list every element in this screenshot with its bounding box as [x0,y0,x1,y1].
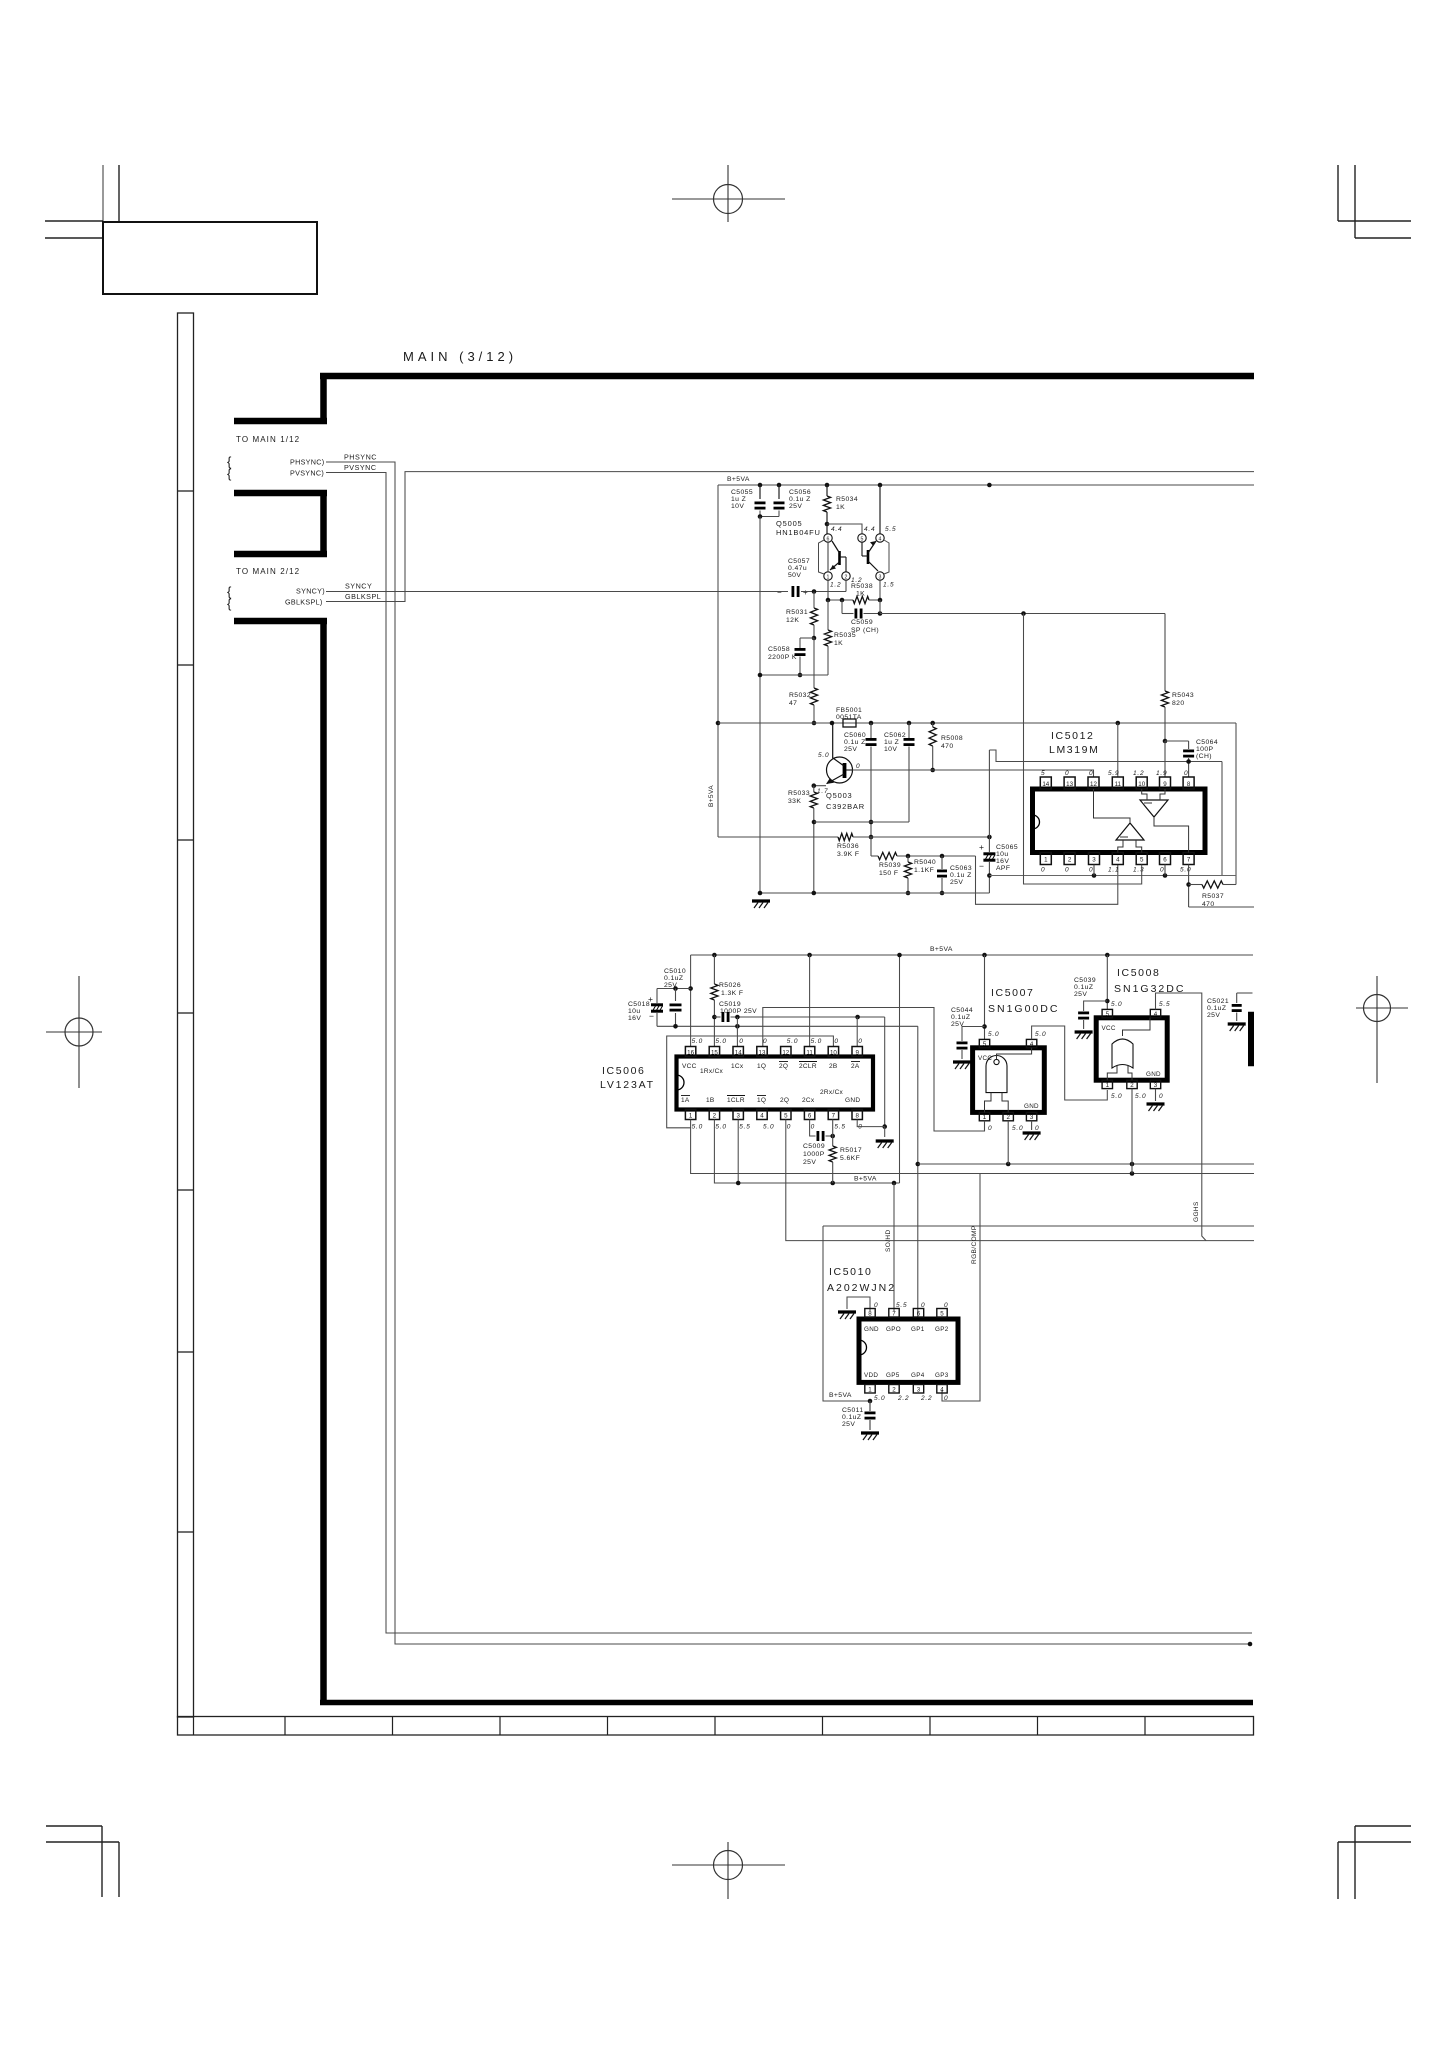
svg-text:5.5: 5.5 [885,526,896,533]
svg-text:0.1uZ: 0.1uZ [1074,984,1093,991]
svg-text:SN1G00DC: SN1G00DC [988,1003,1059,1015]
svg-text:VCC: VCC [1102,1025,1116,1032]
svg-text:5.0: 5.0 [988,1031,999,1038]
svg-text:C5039: C5039 [1074,977,1096,984]
svg-text:2B: 2B [829,1063,838,1070]
svg-text:5.0: 5.0 [692,1038,703,1045]
svg-text:VCC: VCC [978,1055,992,1062]
svg-text:25V: 25V [844,746,857,753]
wire pin1 drop [691,1120,1254,1174]
svg-text:R5038: R5038 [851,583,873,590]
svg-text:SYNCY): SYNCY) [296,587,325,596]
svg-text:R5034: R5034 [836,496,858,503]
svg-text:1CLR: 1CLR [727,1097,745,1104]
wire pin9 riser [856,1017,858,1047]
svg-text:1Q: 1Q [757,1097,766,1104]
svg-text:PHSYNC): PHSYNC) [290,458,324,467]
svg-text:0: 0 [921,1302,925,1309]
op-amp comparator IC5012 body [1033,789,1206,853]
svg-text:C5018: C5018 [628,1001,650,1008]
svg-text:6: 6 [917,1310,921,1317]
wire Q5003 output to IC5012 pin10 [853,770,1094,777]
svg-text:2.2: 2.2 [920,1395,932,1402]
svg-text:IC5010: IC5010 [829,1266,872,1278]
svg-text:3: 3 [917,1386,921,1393]
svg-text:2: 2 [1068,857,1072,864]
svg-text:25V: 25V [950,879,963,886]
svg-text:0: 0 [787,1124,791,1131]
svg-text:2Rx/Cx: 2Rx/Cx [820,1089,844,1096]
svg-text:12K: 12K [786,617,799,624]
svg-text:1: 1 [983,1114,987,1121]
svg-text:5: 5 [1041,770,1045,777]
wire pin2 pin3 B+5VA bus [714,1120,899,1184]
svg-text:1u Z: 1u Z [731,496,746,503]
svg-text:1: 1 [1106,1082,1110,1089]
svg-text:C5060: C5060 [844,732,866,739]
svg-text:C5056: C5056 [789,489,811,496]
svg-text:0: 0 [1065,770,1069,777]
svg-text:5.0: 5.0 [1035,1031,1046,1038]
svg-text:1: 1 [1044,857,1048,864]
svg-text:470: 470 [941,743,954,750]
svg-text:0: 0 [1159,1093,1163,1100]
svg-text:0: 0 [858,1038,862,1045]
svg-text:{: { [227,596,232,611]
wire GBLKSPL riser [326,472,1254,602]
svg-text:25V: 25V [842,1421,855,1428]
svg-text:2: 2 [1006,1114,1010,1121]
wire IC5007 pin1 route [984,1121,986,1131]
registration target right-edge [1364,995,1391,1022]
IC IC5006 body [677,1057,874,1110]
svg-text:GND: GND [1146,1071,1161,1078]
svg-text:47: 47 [789,700,797,707]
wire IC5008 pin3 ground [1155,1089,1157,1101]
svg-text:R5033: R5033 [788,790,810,797]
svg-text:5.5: 5.5 [896,1302,907,1309]
wire IC5007 pin3 ground [1031,1121,1033,1130]
svg-text:GP5: GP5 [886,1372,900,1379]
svg-text:1A: 1A [681,1097,690,1104]
svg-text:1.3K F: 1.3K F [721,990,743,997]
svg-text:5.0: 5.0 [787,1038,798,1045]
svg-text:0: 0 [1089,867,1093,874]
svg-text:A202WJN2: A202WJN2 [827,1282,896,1294]
svg-text:1.7: 1.7 [817,788,828,795]
bottom ruler bar [178,1717,1254,1736]
svg-text:0: 0 [1184,770,1188,777]
svg-text:5.5: 5.5 [1159,1001,1170,1008]
svg-text:11: 11 [806,1050,813,1057]
svg-text:IC5008: IC5008 [1117,967,1160,979]
wire pin8 ground [857,1120,885,1127]
svg-text:2: 2 [892,1386,896,1393]
wire pin7 output [1189,906,1254,908]
svg-text:C5065: C5065 [996,844,1018,851]
svg-text:C5057: C5057 [788,558,810,565]
wire pin8 ground loop [847,1297,870,1311]
svg-text:2Cx: 2Cx [802,1097,815,1104]
svg-text:8: 8 [855,1113,859,1120]
svg-text:PHSYNC: PHSYNC [344,453,377,462]
svg-text:APF: APF [996,865,1010,872]
svg-text:GGHS: GGHS [1193,1201,1200,1222]
svg-text:(CH): (CH) [1196,753,1212,760]
wire pin11 to rail [1117,723,1119,777]
svg-text:1K: 1K [834,640,843,647]
svg-text:14: 14 [735,1050,742,1057]
svg-text:5: 5 [784,1113,788,1120]
svg-text:0051TA: 0051TA [836,714,862,721]
svg-text:B+5VA: B+5VA [930,946,953,953]
wire C5055/C5056 ground drop [778,511,780,517]
wire PVSYNC [326,473,1252,1634]
svg-text:25V: 25V [789,503,802,510]
svg-text:+: + [803,588,808,597]
svg-text:12: 12 [1090,781,1097,788]
svg-text:25V: 25V [1074,991,1087,998]
svg-text:150 F: 150 F [879,870,898,877]
wire SO/HD drop [893,1183,895,1311]
svg-text:R5031: R5031 [786,609,808,616]
svg-text:−: − [979,861,984,871]
svg-text:C5063: C5063 [950,865,972,872]
svg-text:C5010: C5010 [664,968,686,975]
svg-text:2200P K: 2200P K [768,654,797,661]
svg-text:2: 2 [1130,1082,1134,1089]
svg-text:1.2: 1.2 [1133,770,1144,777]
svg-text:0: 0 [811,1124,815,1131]
crop mark bottom-left [46,1825,102,1827]
svg-text:0: 0 [1065,867,1069,874]
wire Q5005 pin3 drop [879,581,881,601]
svg-text:2A: 2A [851,1063,860,1070]
svg-text:0: 0 [1035,1125,1039,1132]
svg-text:C5059: C5059 [851,619,873,626]
svg-text:3: 3 [879,575,882,581]
svg-text:6: 6 [808,1113,812,1120]
svg-text:5: 5 [861,537,864,543]
wire top rail IC5010 [823,1225,1254,1227]
svg-text:8: 8 [1187,781,1191,788]
svg-text:{: { [227,466,232,481]
svg-text:+: + [648,994,653,1004]
svg-text:IC5007: IC5007 [991,987,1034,999]
wire lower join [760,674,828,676]
svg-text:VDD: VDD [864,1372,878,1379]
svg-text:R5040: R5040 [914,859,936,866]
svg-text:HN1B04FU: HN1B04FU [776,528,821,537]
wire IC5007 pin2 drop [1007,1121,1009,1164]
svg-text:33K: 33K [788,798,801,805]
svg-text:C5011: C5011 [842,1407,864,1414]
registration target left-edge [65,1018,93,1046]
ground C5039 [1075,1030,1093,1033]
wire C5059 output to R5043 [880,613,1165,615]
IC IC5007 body [973,1048,1045,1113]
wire SYNCY [326,591,788,593]
svg-text:10u: 10u [996,851,1009,858]
svg-text:5.0: 5.0 [1111,1001,1122,1008]
svg-text:12: 12 [782,1050,789,1057]
svg-text:5.0: 5.0 [811,1038,822,1045]
svg-text:GP2: GP2 [935,1326,949,1333]
svg-text:9: 9 [1163,781,1167,788]
svg-text:0: 0 [874,1302,878,1309]
wire PHSYNC [326,462,1250,1644]
svg-text:0: 0 [988,1125,992,1132]
svg-text:RGB/COMP: RGB/COMP [971,1225,978,1264]
svg-text:14: 14 [1042,781,1049,788]
svg-text:50V: 50V [788,572,801,579]
svg-text:0.47u: 0.47u [788,565,807,572]
svg-text:5.5: 5.5 [739,1124,750,1131]
svg-text:1K: 1K [836,504,845,511]
wire pin9 drop [1164,741,1166,777]
svg-text:2.2: 2.2 [897,1395,909,1402]
svg-text:5: 5 [1106,1011,1110,1018]
svg-text:C392BAR: C392BAR [826,802,865,811]
svg-text:0: 0 [1041,867,1045,874]
wire VCC drop pin16 [690,955,692,1047]
wire B+5VA to IC5008 pin5 [1106,955,1108,1009]
svg-text:GPO: GPO [886,1326,901,1333]
svg-text:4.4: 4.4 [864,526,875,533]
wire cap bottoms [657,1025,918,1027]
wire B+5VA rail [718,484,1254,486]
svg-text:10: 10 [830,1050,837,1057]
svg-text:GND: GND [845,1097,860,1104]
svg-text:R5032: R5032 [789,692,811,699]
svg-text:PVSYNC): PVSYNC) [290,469,324,478]
svg-text:Q5005: Q5005 [776,519,803,528]
svg-text:GBLKSPL: GBLKSPL [345,592,381,601]
svg-text:GP4: GP4 [911,1372,925,1379]
svg-text:GND: GND [1024,1103,1039,1110]
svg-text:1.9: 1.9 [1156,770,1167,777]
svg-text:7: 7 [1187,857,1191,864]
wire y1164 bus [918,1163,1254,1165]
svg-text:5.5: 5.5 [834,1124,845,1131]
wire IC5008 pin4 GGHS [1156,993,1207,1241]
svg-text:5.0: 5.0 [1012,1125,1023,1132]
svg-text:0.1u Z: 0.1u Z [950,872,972,879]
pin boxes IC5008 [1102,1009,1112,1017]
registration target bottom-center [714,1851,743,1880]
wire B+5VA left leg IC5010 [823,1226,870,1401]
svg-text:5.9: 5.9 [1108,770,1119,777]
crop mark top-right [1337,165,1339,221]
svg-text:5: 5 [983,1041,987,1048]
svg-text:R5035: R5035 [834,632,856,639]
svg-text:GP1: GP1 [911,1326,925,1333]
svg-text:B+5VA: B+5VA [708,785,715,807]
svg-text:0: 0 [856,763,860,770]
svg-text:1: 1 [868,1386,872,1393]
NAND gate symbol [986,1056,1007,1093]
svg-text:1.2: 1.2 [830,582,841,589]
svg-text:5: 5 [940,1310,944,1317]
svg-text:R5037: R5037 [1202,893,1224,900]
svg-text:820: 820 [1172,700,1185,707]
wire IC5012 pin5 sense loop [1024,614,1142,885]
svg-text:1.3: 1.3 [1133,867,1144,874]
svg-text:5.0: 5.0 [1135,1093,1146,1100]
svg-text:0: 0 [944,1302,948,1309]
svg-text:0.1uZ: 0.1uZ [951,1014,970,1021]
svg-text:VCC: VCC [682,1063,697,1070]
comparator A triangle [1140,800,1168,817]
svg-text:1Rx/Cx: 1Rx/Cx [700,1068,724,1075]
svg-text:4: 4 [1116,857,1120,864]
svg-text:2Q: 2Q [779,1063,788,1070]
svg-text:4: 4 [879,537,882,543]
pin boxes IC5007 [979,1039,989,1047]
svg-text:GP3: GP3 [935,1372,949,1379]
svg-text:−: − [777,588,782,597]
crop mark bottom-right [1355,1825,1411,1827]
svg-text:5.0: 5.0 [715,1124,726,1131]
svg-text:7: 7 [832,1113,836,1120]
wire filtered rail [718,722,1236,724]
ground [752,899,770,902]
wire B+5VA to IC5007 pin5 [984,955,986,1039]
svg-text:IC5006: IC5006 [602,1065,645,1077]
wire pin5 long drop [786,1120,1254,1241]
svg-text:0: 0 [1089,770,1093,777]
svg-text:0: 0 [834,1038,838,1045]
svg-text:3: 3 [1092,857,1096,864]
svg-text:0: 0 [739,1038,743,1045]
svg-text:1.1: 1.1 [1108,867,1119,874]
svg-text:GBLKSPL): GBLKSPL) [285,598,323,607]
svg-text:R5043: R5043 [1172,692,1194,699]
registration target top-center [714,185,743,214]
comparator B triangle [1116,823,1144,840]
svg-text:R5039: R5039 [879,862,901,869]
title box top-left [103,222,317,294]
svg-text:1.1KF: 1.1KF [914,867,934,874]
svg-text:+: + [979,842,984,852]
svg-text:16V: 16V [628,1015,641,1022]
svg-text:0.1uZ: 0.1uZ [664,975,683,982]
svg-text:3.9K F: 3.9K F [837,851,859,858]
crop mark top-left [102,165,104,222]
svg-text:1.5: 1.5 [883,582,894,589]
svg-text:B+5VA: B+5VA [829,1392,852,1399]
svg-text:7: 7 [892,1310,896,1317]
wire C5019 ground bus [731,1016,885,1018]
svg-text:3: 3 [1154,1082,1158,1089]
svg-text:GND: GND [864,1326,879,1333]
svg-text:5.0: 5.0 [692,1124,703,1131]
svg-text:0: 0 [763,1038,767,1045]
svg-text:SO/HD: SO/HD [885,1229,892,1252]
wire IC5012 right frame [1235,723,1237,885]
svg-text:0.1u Z: 0.1u Z [844,739,866,746]
svg-text:10V: 10V [884,746,897,753]
svg-text:MAIN (3/12): MAIN (3/12) [403,349,517,364]
svg-text:13: 13 [759,1050,766,1057]
wire node A [814,821,909,823]
svg-text:10V: 10V [731,503,744,510]
svg-text:TO MAIN 1/12: TO MAIN 1/12 [236,435,300,444]
svg-text:6: 6 [827,537,830,543]
svg-text:C5044: C5044 [951,1007,973,1014]
OR gate symbol [1112,1039,1133,1068]
svg-text:4: 4 [760,1113,764,1120]
svg-text:0: 0 [944,1395,948,1402]
svg-text:2Q: 2Q [780,1097,789,1104]
IC partial right edge [1248,1012,1254,1066]
svg-text:6: 6 [1163,857,1167,864]
svg-text:R5036: R5036 [837,843,859,850]
svg-text:0.1u Z: 0.1u Z [789,496,811,503]
svg-text:0.1uZ: 0.1uZ [1207,1005,1226,1012]
svg-text:9: 9 [855,1050,859,1057]
svg-text:1B: 1B [706,1097,715,1104]
svg-text:5.0: 5.0 [874,1395,885,1402]
svg-text:1000P 25V: 1000P 25V [720,1008,757,1015]
svg-text:5: 5 [1140,857,1144,864]
svg-text:C5055: C5055 [731,489,753,496]
svg-text:1: 1 [689,1113,693,1120]
svg-text:LM319M: LM319M [1049,744,1099,756]
svg-text:100P: 100P [1196,746,1214,753]
svg-text:1Q: 1Q [757,1063,766,1070]
wire left frame [667,1036,834,1128]
svg-text:8: 8 [868,1310,872,1317]
wire ground rail [760,892,989,894]
svg-text:1: 1 [827,575,830,581]
svg-text:5.0: 5.0 [715,1038,726,1045]
wire mid B+5VA rail [691,954,1253,956]
svg-text:Q5003: Q5003 [826,791,853,800]
svg-text:5.0: 5.0 [818,752,829,759]
svg-text:C5058: C5058 [768,646,790,653]
svg-text:4.4: 4.4 [831,526,842,533]
svg-text:C5064: C5064 [1196,739,1218,746]
svg-text:11: 11 [1115,781,1122,788]
wire riser to lower bus [917,1026,919,1319]
svg-text:C5021: C5021 [1207,998,1229,1005]
svg-text:25V: 25V [803,1159,816,1166]
svg-text:3: 3 [736,1113,740,1120]
svg-text:R5026: R5026 [719,982,741,989]
ground IC5006 pin8 [884,1127,886,1137]
svg-text:LV123AT: LV123AT [600,1079,655,1091]
IC IC5010 body [859,1319,958,1382]
svg-text:5.0: 5.0 [1180,867,1191,874]
svg-text:C5062: C5062 [884,732,906,739]
thick sheet border [320,373,1254,380]
svg-text:2: 2 [845,575,848,581]
svg-text:0: 0 [1160,867,1164,874]
svg-text:5.0: 5.0 [1111,1093,1122,1100]
wire IC5008 pin2 drop [1131,1089,1133,1174]
svg-text:TO MAIN 2/12: TO MAIN 2/12 [236,567,300,576]
left binding strip [178,313,194,1717]
svg-text:4: 4 [1030,1041,1034,1048]
wire comparator drive to IC5012 pin4 [976,856,1118,904]
wire C5019 to pin14 [736,1017,738,1047]
svg-text:10u: 10u [628,1008,641,1015]
svg-text:13: 13 [1066,781,1073,788]
wire B+5VA left drop [717,485,719,837]
svg-text:R5017: R5017 [840,1147,862,1154]
svg-text:1000P: 1000P [803,1151,825,1158]
